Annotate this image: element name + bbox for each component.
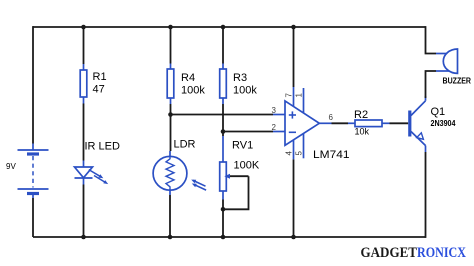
node junction bottom rail / LDR [168, 235, 173, 240]
wire node A to LDR [170, 115, 172, 152]
wire R3 branch top [222, 27, 224, 64]
wire node A to op-amp pin 3 [171, 114, 274, 116]
svg-text:LM741: LM741 [313, 149, 350, 161]
svg-text:IR LED: IR LED [85, 141, 121, 153]
svg-text:5: 5 [295, 151, 304, 156]
LDR light arrowheads [191, 180, 196, 184]
svg-text:BUZZER: BUZZER [443, 77, 472, 86]
wire node B to RV1 [222, 132, 224, 137]
transistor Q1 [410, 96, 426, 152]
wire op-amp output to R2 [332, 122, 349, 124]
potentiometer RV1 [220, 136, 249, 200]
op-amp U1 LM741 [273, 87, 332, 159]
resistor R4 [167, 64, 174, 105]
buzzer BZ1 [436, 49, 458, 73]
svg-text:RV1: RV1 [232, 140, 253, 152]
svg-text:9V: 9V [6, 162, 16, 171]
wire left vertical (battery bottom lead) [32, 198, 34, 237]
wire R1 branch top [83, 27, 85, 64]
resistor R2 [348, 120, 390, 127]
wire R4 to node A [170, 104, 172, 115]
svg-text:100k: 100k [181, 85, 205, 97]
node junction RV1 bottom / wiper [221, 207, 226, 212]
svg-text:10k: 10k [355, 127, 370, 137]
battery BT1 [18, 144, 49, 199]
svg-text:LDR: LDR [174, 139, 196, 151]
svg-text:3: 3 [272, 106, 277, 115]
wire top rail corner to buzzer top pin [426, 26, 437, 53]
Q1 emitter arrowhead [417, 133, 424, 140]
node junction bottom rail / pin 4 [291, 235, 296, 240]
svg-text:100k: 100k [233, 85, 257, 97]
wire buzzer bottom pin to Q1 collector [426, 71, 437, 98]
svg-text:4: 4 [285, 151, 294, 156]
svg-text:47: 47 [93, 84, 105, 96]
wire R1 to LED [83, 104, 85, 161]
node junction top rail / R3 [221, 25, 226, 30]
IR LED emission arrowheads [98, 174, 103, 178]
svg-text:7: 7 [285, 93, 294, 98]
wire LED to bottom rail [83, 185, 85, 238]
resistor R1 [80, 64, 87, 104]
wire op-amp pin 4 to bottom rail [293, 159, 295, 237]
svg-text:R1: R1 [93, 71, 107, 83]
svg-text:R3: R3 [233, 72, 247, 84]
wire Q1 emitter to bottom rail [425, 152, 427, 238]
node junction bottom rail / RV1 [221, 235, 226, 240]
svg-text:6: 6 [329, 113, 334, 122]
wire top rail [33, 26, 426, 28]
svg-text:1: 1 [295, 93, 304, 98]
wire node B to op-amp pin 2 [223, 131, 273, 133]
svg-text:2: 2 [272, 123, 277, 132]
svg-text:100K: 100K [234, 160, 260, 172]
resistor R3 [220, 64, 227, 105]
wire RV1 to bottom rail [222, 200, 224, 238]
node B junction R3/RV1 [221, 129, 226, 134]
wire RV1 wiper loop [223, 176, 249, 209]
svg-text:R2: R2 [354, 109, 368, 121]
wire op-amp pin 7 to top rail [293, 27, 295, 87]
svg-text:R4: R4 [181, 72, 195, 84]
svg-text:2N3904: 2N3904 [431, 119, 456, 128]
node junction top rail / pin 7 [291, 25, 296, 30]
node junction top rail / R4 [168, 25, 173, 30]
svg-text:Q1: Q1 [431, 106, 446, 118]
svg-text:GADGET: GADGET [361, 245, 418, 261]
wire R4 branch top [170, 27, 172, 64]
wire bottom rail [33, 236, 426, 238]
node junction top rail / R1 [81, 25, 86, 30]
node junction bottom rail / LED [81, 235, 86, 240]
wire R3 to node B [222, 104, 224, 132]
node A junction R4/LDR [168, 112, 173, 117]
LDR LDR1 [153, 151, 206, 195]
wire LDR to bottom rail [169, 195, 171, 237]
diode IR LED D1 [75, 161, 105, 185]
wire left vertical (battery top lead) [32, 26, 34, 143]
svg-text:RONICX: RONICX [417, 245, 466, 261]
wire R2 to Q1 base [390, 122, 409, 124]
